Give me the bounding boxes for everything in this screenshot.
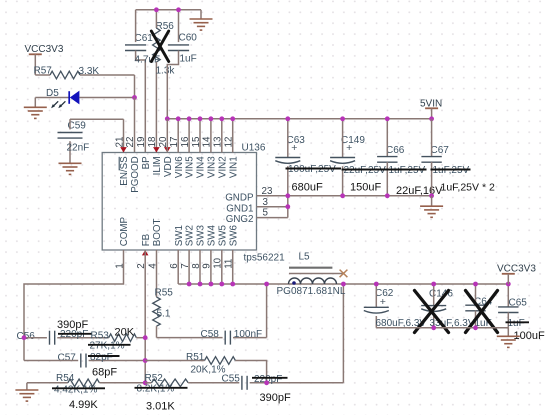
- ground (D5): [24, 98, 47, 119]
- value 100nF (C58): [234, 329, 262, 340]
- junction FB tap on output bus: [341, 282, 346, 287]
- annotation 68pF (C57): [92, 367, 117, 379]
- svg-text:C61: C61: [135, 33, 154, 44]
- svg-text:4.99K: 4.99K: [69, 399, 98, 411]
- svg-text:SW1: SW1: [174, 225, 185, 246]
- EN/SS overline: [118, 157, 120, 171]
- annotation 390pF (C56): [57, 319, 88, 331]
- svg-text:ILIM: ILIM: [152, 156, 163, 175]
- svg-text:VCC3V3: VCC3V3: [25, 44, 64, 55]
- svg-text:VIN3: VIN3: [207, 156, 218, 178]
- capacitor C61: [125, 10, 153, 153]
- junction C66 top: [385, 116, 390, 121]
- value 1uF,25V crossed (C67): [431, 165, 471, 176]
- LED D5: [35, 88, 134, 108]
- annotation 22uF,16V (C66): [396, 185, 443, 197]
- U136 top pin numbers: [114, 136, 234, 147]
- svg-text:22nF: 22nF: [67, 143, 90, 154]
- value 8.2K,1% crossed (R52): [135, 384, 188, 395]
- annotation 4.99K (R54): [69, 399, 98, 411]
- svg-text:C57: C57: [58, 352, 77, 363]
- X mark over C64: [466, 291, 498, 333]
- red input arrows top pins 21/18/20: [120, 147, 170, 152]
- junctions on 5VIN bus (pins): [165, 116, 235, 121]
- ground (output rail): [497, 328, 520, 348]
- value 4.7uF (C61): [135, 55, 161, 66]
- value 220pF crossed (C56): [58, 329, 92, 340]
- annotation 3.01K (R52): [146, 401, 175, 413]
- junction FB/R54/R52: [143, 380, 148, 385]
- wire GNG2 pin 5: [257, 217, 288, 219]
- capacitor C56: [17, 331, 109, 345]
- capacitor C67: [421, 119, 449, 196]
- ground (C59): [59, 163, 82, 174]
- wires VIN pins to bus: [178, 119, 233, 153]
- svg-text:20K,1%: 20K,1%: [191, 365, 226, 376]
- svg-text:82pF: 82pF: [90, 352, 113, 363]
- annotation 20K (R53): [115, 327, 135, 339]
- part number PG0871.681NL: [277, 286, 346, 297]
- junction gnd bus C67: [429, 193, 434, 198]
- svg-text:8.2K,1%: 8.2K,1%: [137, 384, 175, 395]
- wire C58 riser to SW: [266, 284, 268, 338]
- svg-text:C67: C67: [431, 145, 450, 156]
- junction C146 top: [431, 282, 436, 287]
- wire gnd riser: [287, 196, 289, 218]
- capacitor C60: [167, 10, 197, 119]
- svg-text:150uF: 150uF: [350, 182, 381, 194]
- svg-text:+: +: [291, 142, 297, 154]
- capacitor C59: [58, 119, 87, 163]
- svg-text:C149: C149: [341, 135, 365, 146]
- no-connect X mark: [340, 270, 348, 278]
- junction C149 top: [340, 116, 345, 121]
- svg-text:C60: C60: [179, 33, 198, 44]
- wire top bus (BP net): [136, 9, 201, 11]
- value 82pF crossed (C57): [88, 352, 120, 363]
- annotation 100uF (C65): [514, 330, 545, 342]
- value 27K,1% crossed (R53): [88, 341, 131, 352]
- svg-text:VIN1: VIN1: [228, 156, 239, 178]
- svg-text:GND1: GND1: [226, 203, 253, 214]
- junction C56 left: [22, 335, 27, 340]
- svg-text:1uF: 1uF: [508, 318, 525, 329]
- junction FB/R53: [143, 335, 148, 340]
- value 33uF,6.3V (C146): [430, 318, 475, 329]
- value 3.3K (R57): [79, 66, 100, 77]
- U136 bottom pin numbers: [114, 257, 234, 268]
- junction rail C64: [473, 325, 478, 330]
- resistor R51: [145, 352, 266, 383]
- capacitor C63: [275, 119, 305, 196]
- svg-text:+: +: [346, 142, 352, 154]
- resistor R56: [153, 10, 175, 153]
- wire C59 to pin 21: [70, 119, 124, 152]
- wire VDD pin 20: [166, 119, 168, 153]
- ground (top, BP net): [190, 10, 213, 30]
- svg-text:18: 18: [147, 136, 158, 147]
- svg-text:4.42K,1%: 4.42K,1%: [54, 384, 97, 395]
- wire output cap bottom rail: [376, 327, 508, 329]
- wire BOOT pin 4: [156, 250, 158, 297]
- svg-text:BOOT: BOOT: [152, 219, 163, 247]
- capacitor C58: [157, 329, 267, 344]
- wire FB tap riser: [342, 284, 344, 383]
- svg-text:VDD: VDD: [163, 156, 174, 177]
- annotation 680uF (C63): [292, 182, 323, 194]
- svg-text:EN/SS: EN/SS: [119, 156, 130, 186]
- junction D5/R57/pin22: [132, 95, 137, 100]
- svg-text:+: +: [380, 296, 386, 308]
- inductor L5: [289, 252, 337, 285]
- svg-text:SW2: SW2: [185, 225, 196, 246]
- svg-text:1.3k: 1.3k: [156, 66, 176, 77]
- value 100uF,25V crossed (C63): [286, 164, 342, 175]
- junction FB/C57/R51: [143, 358, 148, 363]
- svg-text:tps56221: tps56221: [244, 253, 286, 264]
- X mark over C146: [415, 291, 449, 333]
- U136 right pin numbers: [262, 186, 273, 219]
- svg-text:68pF: 68pF: [92, 367, 117, 379]
- svg-text:FB: FB: [141, 233, 152, 246]
- designator U136: [242, 143, 266, 154]
- power port VCC3V3 (right): [497, 263, 536, 284]
- ground (R54): [15, 383, 38, 401]
- value 4.42K,1% crossed (R54): [52, 384, 105, 395]
- X mark over R56: [151, 31, 168, 62]
- U136 bottom pin labels: [119, 216, 239, 246]
- svg-text:22: 22: [125, 137, 136, 148]
- value 1uF (C64): [475, 318, 492, 329]
- junction C65/VCC riser: [506, 282, 511, 287]
- capacitor C57: [24, 352, 145, 367]
- junction gnd GND1: [285, 204, 290, 209]
- svg-text:SW6: SW6: [228, 225, 239, 247]
- wire stub with no-connect X: [289, 273, 343, 275]
- svg-text:3.01K: 3.01K: [146, 401, 175, 413]
- junction C55/R51: [264, 380, 269, 385]
- U136 right pin labels: [225, 192, 254, 225]
- resistor R52: [145, 373, 240, 387]
- wire R57 to pin 22: [134, 75, 136, 98]
- annotation 390pF (C55): [260, 392, 291, 404]
- wire GNDP pin 23 / gnd bus: [257, 195, 432, 197]
- junction gnd bus C149: [340, 193, 345, 198]
- value 1uF crossed (C65): [506, 318, 530, 329]
- wire FB vertical: [144, 250, 146, 383]
- wires SW pins down: [178, 250, 233, 284]
- svg-text:R56: R56: [156, 21, 175, 32]
- ground (input bus at C67): [420, 196, 443, 218]
- capacitor C146: [421, 284, 453, 328]
- svg-text:VIN6: VIN6: [174, 156, 185, 178]
- wire 5VIN bus: [167, 118, 431, 120]
- red arrow FB pin: [142, 250, 149, 255]
- svg-text:C58: C58: [201, 329, 220, 340]
- op-amp/regulator U136 tps56221 body: [102, 153, 256, 251]
- capacitor C62: [364, 284, 394, 328]
- svg-text:VIN2: VIN2: [217, 156, 228, 178]
- svg-text:SW5: SW5: [217, 225, 228, 247]
- svg-text:VIN4: VIN4: [196, 156, 207, 178]
- svg-text:BP: BP: [141, 156, 152, 170]
- capacitor C55: [222, 374, 344, 390]
- svg-text:GNDP: GNDP: [225, 192, 254, 203]
- svg-text:19: 19: [136, 137, 147, 148]
- capacitor C149: [330, 119, 365, 196]
- wire SW bus: [178, 283, 508, 285]
- capacitor C64: [465, 284, 492, 328]
- resistor R57: [34, 66, 135, 79]
- value 20K,1% (R51): [191, 365, 226, 376]
- resistor R54: [27, 373, 145, 387]
- value 1uF,25V crossed (C66): [387, 165, 427, 176]
- part name tps56221: [244, 253, 286, 264]
- svg-text:C55: C55: [222, 374, 241, 385]
- svg-text:C66: C66: [386, 145, 405, 156]
- resistor R53: [91, 331, 146, 342]
- svg-text:R57: R57: [34, 66, 53, 77]
- svg-text:390pF: 390pF: [260, 392, 291, 404]
- svg-text:27K,1%: 27K,1%: [90, 341, 125, 352]
- junction R56 top: [154, 7, 159, 12]
- value 1uF (C60): [180, 54, 197, 65]
- junction C58 riser: [264, 282, 269, 287]
- value 5.1 (R55): [157, 309, 171, 320]
- junction C62 top: [374, 282, 379, 287]
- inductor L5 core bar: [289, 267, 332, 269]
- svg-text:1uF,25V * 2: 1uF,25V * 2: [441, 182, 495, 194]
- svg-text:20K: 20K: [115, 327, 135, 339]
- svg-text:VCC3V3: VCC3V3: [497, 263, 536, 274]
- U136 top pin labels: [119, 156, 239, 193]
- junction gnd bus C63: [285, 193, 290, 198]
- wire junction to pin 22 PGOOD: [134, 98, 136, 153]
- capacitor C65: [498, 284, 527, 328]
- svg-text:1uF: 1uF: [180, 54, 197, 65]
- svg-text:21: 21: [114, 137, 125, 148]
- svg-text:680uF: 680uF: [292, 182, 323, 194]
- capacitor C66: [377, 119, 405, 196]
- svg-text:SW3: SW3: [196, 225, 207, 247]
- junction C64 top: [473, 282, 478, 287]
- power port VCC3V3 (left): [25, 44, 64, 75]
- value 1.3k (R56): [156, 66, 176, 77]
- junction rail C146: [431, 325, 436, 330]
- value 220pF crossed (C55): [252, 374, 288, 385]
- wire GND1 pin 3: [257, 206, 288, 208]
- svg-text:PG0871.681NL: PG0871.681NL: [277, 286, 346, 297]
- value 22uF,25V crossed (C149): [342, 165, 389, 176]
- junction C60 top: [176, 7, 181, 12]
- svg-text:COMP: COMP: [119, 216, 130, 246]
- junction gnd bus C66: [385, 193, 390, 198]
- svg-text:5.1: 5.1: [157, 309, 171, 320]
- wire COMP pin 1: [24, 250, 124, 361]
- resistor R55: [153, 288, 174, 338]
- junction 5VIN riser: [429, 116, 434, 121]
- annotation 150uF (C149): [350, 182, 381, 194]
- junctions SW pins on bus: [187, 282, 235, 287]
- svg-text:100nF: 100nF: [234, 329, 262, 340]
- value 680uF,6.3V (C62): [376, 318, 427, 329]
- svg-text:SW4: SW4: [207, 225, 218, 247]
- power port 5VIN: [420, 98, 442, 119]
- svg-text:U136: U136: [242, 143, 266, 154]
- annotation 1uF,25V * 2 (C67): [441, 182, 495, 194]
- svg-text:3.3K: 3.3K: [79, 66, 100, 77]
- svg-text:L5: L5: [299, 252, 311, 263]
- junction C63 top: [285, 116, 290, 121]
- svg-text:GNG2: GNG2: [226, 214, 254, 225]
- value 22nF (C59): [67, 143, 90, 154]
- svg-text:PGOOD: PGOOD: [130, 156, 141, 192]
- svg-text:VIN5: VIN5: [185, 156, 196, 178]
